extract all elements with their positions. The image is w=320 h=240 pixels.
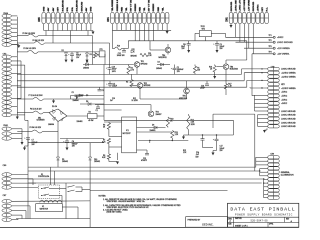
transistor TR3 — [148, 105, 161, 117]
svg-text:48V: 48V — [52, 7, 55, 11]
svg-text:F7 2.5A S-B 250V: F7 2.5A S-B 250V — [29, 94, 44, 97]
wire left drop bus — [25, 120, 28, 218]
resistor R16 — [209, 65, 216, 77]
capacitor C10 — [106, 65, 117, 75]
svg-text:LOGIC GROUND: LOGIC GROUND — [277, 42, 293, 44]
ground D3 — [86, 60, 89, 63]
svg-text:D8: D8 — [86, 101, 88, 103]
connector CN2 — [2, 12, 12, 46]
svg-text:F8 5A S-B 32V: F8 5A S-B 32V — [30, 107, 42, 110]
capacitor C18 — [200, 81, 209, 90]
svg-text:GROUND: GROUND — [231, 1, 233, 11]
svg-text:+12VDC UNREG.: +12VDC UNREG. — [281, 76, 296, 78]
svg-text:+: + — [171, 68, 172, 70]
wire bus y142.7 — [28, 142, 104, 144]
ground R16 — [213, 76, 216, 79]
wire bus under IC — [138, 138, 188, 143]
capacitor C6 — [68, 52, 81, 60]
svg-text:ILLUMINATION: ILLUMINATION — [281, 174, 294, 177]
ground C8 — [187, 50, 190, 53]
wire bus center 3 — [28, 170, 260, 172]
fuse F8 — [17, 107, 49, 114]
svg-text:MJE15031: MJE15031 — [159, 57, 167, 59]
svg-text:2N6057: 2N6057 — [156, 114, 162, 116]
ground D2 — [65, 60, 68, 63]
diode D7 — [71, 94, 105, 102]
fuse F3 — [17, 47, 99, 54]
svg-text:TP3: TP3 — [269, 46, 272, 48]
wire relay outputs — [57, 183, 78, 219]
title block — [228, 203, 299, 227]
ground C17 — [203, 148, 217, 156]
svg-text:VARISTOR: VARISTOR — [40, 208, 49, 211]
svg-text:520-5047-00: 520-5047-00 — [250, 220, 268, 223]
capacitor C7 — [24, 138, 37, 146]
wire bus logic ground — [17, 86, 247, 88]
diode D2 — [62, 50, 68, 60]
wire +5V feeders to CN8 — [255, 95, 268, 111]
capacitor C13 — [137, 150, 150, 162]
wire TR2-TR5 emitter rail — [140, 98, 187, 100]
ground C4 — [66, 148, 69, 151]
wire right loop — [213, 114, 255, 171]
svg-text:C16: C16 — [112, 98, 115, 100]
svg-text:CN1: CN1 — [226, 17, 228, 22]
wire relay feeds — [38, 167, 54, 185]
svg-text:F6 8A S-B 32V: F6 8A S-B 32V — [33, 39, 45, 42]
ground CN1 pin1 — [230, 25, 233, 28]
svg-text:RED: RED — [121, 6, 123, 11]
resistor R8 — [102, 154, 111, 159]
resistor R10 — [166, 117, 173, 128]
bridge rectifier D1-D4 — [37, 106, 68, 126]
wire feeders to CN9 — [256, 157, 268, 197]
svg-text:SPECIFIED. VALUES MARKED * ARE: SPECIFIED. VALUES MARKED * ARE 1%. — [107, 200, 146, 203]
diode D9 — [137, 125, 166, 133]
svg-text:+: + — [185, 43, 186, 45]
svg-text:REV: REV — [286, 218, 289, 220]
wire ground feeders to CN8 — [258, 115, 268, 127]
svg-text:TP2: TP2 — [269, 40, 272, 42]
notes frame — [90, 183, 227, 227]
wire CN10 comb and ground — [12, 129, 22, 142]
wire TR1 emitter drop — [103, 65, 105, 96]
svg-text:IC1: IC1 — [126, 130, 129, 132]
wire cap rail — [188, 134, 233, 135]
capacitor C11 — [106, 81, 117, 88]
notes text — [99, 196, 182, 214]
svg-text:R15: R15 — [183, 150, 186, 152]
svg-text:SOLENOID PWR: SOLENOID PWR — [77, 0, 79, 12]
resistor R11 — [140, 53, 153, 57]
capacitor C14 — [196, 135, 205, 158]
wire TR3 base bus — [95, 98, 151, 110]
svg-text:CN6: CN6 — [3, 165, 7, 167]
svg-text:R11: R11 — [148, 53, 151, 55]
svg-text:2uF: 2uF — [110, 100, 113, 102]
svg-text:DATA EAST PINBALL: DATA EAST PINBALL — [230, 207, 295, 213]
svg-text:NOTES:: NOTES: — [99, 196, 107, 198]
svg-text:CN5: CN5 — [39, 17, 41, 22]
wire TR1 collector bus — [83, 36, 134, 65]
wire bottom bus — [16, 218, 90, 220]
svg-text:YEL: YEL — [162, 7, 164, 12]
ground C9 — [216, 50, 219, 53]
fuse F5 — [17, 32, 92, 37]
svg-text:+5VDC: +5VDC — [281, 96, 288, 98]
wire CN2 pin comb to left bus — [12, 16, 19, 45]
connector CN4 — [107, 0, 169, 24]
svg-text:+: + — [68, 54, 69, 56]
wire bus +12V unreg — [17, 73, 241, 75]
svg-text:1N5402: 1N5402 — [94, 161, 100, 163]
svg-text:100uF: 100uF — [79, 95, 84, 97]
svg-text:1N4004: 1N4004 — [83, 67, 89, 69]
prepared by box — [186, 217, 228, 228]
svg-text:48V: 48V — [85, 7, 88, 11]
diode D10 — [89, 143, 100, 183]
ground C6 — [71, 60, 74, 63]
svg-text:LOGIC GROUND: LOGIC GROUND — [281, 126, 296, 128]
svg-text:RT1: RT1 — [100, 49, 103, 51]
svg-text:D2: D2 — [62, 50, 64, 52]
svg-text:GED INC.: GED INC. — [202, 222, 214, 226]
svg-text:1N5402: 1N5402 — [77, 121, 83, 123]
diode D5 — [77, 95, 89, 123]
svg-text:SOL: SOL — [67, 6, 69, 11]
resistor R13 — [137, 131, 179, 139]
svg-text:PREPARED BY: PREPARED BY — [188, 218, 201, 221]
svg-text:+5VDC: +5VDC — [277, 37, 284, 39]
node general illumination — [281, 171, 294, 176]
svg-text:TP1: TP1 — [269, 35, 272, 37]
svg-text:GREEN: GREEN — [135, 3, 137, 11]
transformer T1 winding — [40, 200, 62, 202]
ground IC1 — [109, 159, 119, 164]
resistor R3 — [127, 65, 135, 75]
svg-text:CN7: CN7 — [3, 195, 7, 197]
resistor R17 — [224, 84, 232, 96]
transistor TR5 — [179, 81, 189, 100]
ground CN4 — [166, 30, 169, 34]
svg-text:RED: RED — [140, 6, 142, 11]
svg-text:1N4004: 1N4004 — [73, 100, 79, 102]
svg-text:N.C.: N.C. — [266, 7, 268, 12]
wire CN7 comb — [12, 201, 91, 220]
svg-text:+5VDC: +5VDC — [281, 92, 288, 94]
resistor R6 — [103, 123, 111, 130]
svg-text:POWER SUPPLY BOARD SCHEMATIC: POWER SUPPLY BOARD SCHEMATIC — [235, 214, 293, 217]
svg-text:4700PF: 4700PF — [141, 160, 147, 162]
diode D8 — [80, 96, 104, 121]
transistor TR6 — [217, 60, 247, 84]
node TP3 +12V unreg — [244, 46, 291, 50]
node TP1 +5VDC — [226, 35, 285, 39]
wire bus center 1 — [104, 119, 233, 121]
svg-text:D4: D4 — [158, 62, 160, 64]
svg-text:KEY: KEY — [262, 6, 264, 11]
resistor R1 — [193, 65, 200, 75]
svg-text:1N5402: 1N5402 — [62, 161, 68, 163]
svg-text:48V: 48V — [47, 7, 50, 11]
svg-text:1N5402: 1N5402 — [156, 68, 162, 70]
svg-text:LOGIC GROUND: LOGIC GROUND — [281, 118, 296, 120]
wire CN4 pin drops — [112, 24, 171, 41]
svg-text:-12V UNREG.: -12V UNREG. — [277, 54, 290, 56]
resistor R2 wirewound — [67, 111, 104, 121]
wire regulator input bus — [110, 41, 247, 65]
svg-text:R12: R12 — [133, 98, 136, 100]
diode D4 1N5402 — [156, 62, 170, 70]
diode D6 — [83, 62, 89, 70]
svg-text:R2: R2 — [89, 111, 91, 113]
connector CN3 — [2, 54, 12, 117]
connector CN10 — [2, 125, 12, 140]
svg-text:LOGIC GROUND: LOGIC GROUND — [281, 115, 296, 117]
svg-text:C5: C5 — [72, 92, 74, 94]
capacitor C5 — [72, 92, 84, 99]
wire IC1 left pins — [104, 122, 122, 160]
capacitor C9 — [213, 41, 224, 50]
svg-text:GND: GND — [91, 6, 93, 11]
svg-text:DB1: DB1 — [38, 118, 41, 120]
capacitor C8 — [181, 41, 191, 50]
fuse F9 — [17, 122, 58, 134]
svg-text:+12VDC UNREG.: +12VDC UNREG. — [281, 88, 296, 90]
svg-text:D1-D4: D1-D4 — [52, 106, 57, 108]
fuse F7 — [17, 94, 104, 101]
svg-text:+5VDC RET: +5VDC RET — [235, 0, 237, 12]
svg-text:KEY: KEY — [58, 6, 60, 11]
wire CN1 pin drops — [231, 24, 253, 54]
svg-text:+: + — [213, 43, 214, 45]
svg-text:CN9: CN9 — [270, 153, 274, 155]
svg-text:YEL: YEL — [144, 7, 146, 12]
svg-text:25V CT TAP: 25V CT TAP — [148, 0, 151, 12]
wire feeders to CN8 — [242, 41, 268, 96]
ground CN10 — [21, 142, 24, 145]
svg-text:CONTROL/RA: CONTROL/RA — [38, 175, 50, 178]
ground CN5 common — [91, 31, 94, 35]
node TP4 -12V unreg — [252, 51, 290, 55]
svg-text:SOL: SOL — [72, 6, 74, 11]
capacitor C1 — [171, 65, 184, 75]
wire bus -12V unreg — [17, 80, 244, 82]
ground CN8 — [263, 128, 267, 133]
diode D12 — [131, 49, 137, 57]
ground R14 — [182, 135, 188, 139]
wire bus to CN9 b — [28, 182, 262, 184]
svg-text:CN10: CN10 — [3, 125, 8, 127]
relay K1 — [38, 185, 59, 198]
svg-text:50V CT TAP: 50V CT TAP — [129, 0, 132, 12]
svg-text:GROUND: GROUND — [253, 1, 255, 11]
svg-text:F9 5A S-B 32V: F9 5A S-B 32V — [30, 126, 42, 129]
ground F7 line — [52, 99, 55, 103]
node TP2 logic ground — [236, 40, 294, 44]
svg-text:100uF 16V: 100uF 16V — [117, 55, 126, 57]
svg-text:-12V UNREG: -12V UNREG — [249, 0, 251, 12]
svg-text:TP4: TP4 — [269, 51, 272, 53]
svg-text:MPSD02: MPSD02 — [141, 63, 148, 65]
transistor TR4 — [150, 41, 171, 59]
capacitor C12 — [117, 49, 126, 57]
wire taps from CN5 bus — [46, 31, 88, 44]
svg-text:CN4: CN4 — [107, 17, 110, 22]
capacitor C3 — [98, 87, 105, 92]
svg-text:300: 300 — [197, 70, 200, 72]
svg-text:C12: C12 — [118, 53, 121, 55]
svg-text:100uF: 100uF — [200, 88, 205, 90]
resistor R14 — [187, 114, 195, 135]
svg-text:D12: D12 — [132, 49, 135, 51]
svg-text:+5VDC: +5VDC — [281, 99, 288, 101]
svg-text:VR2: VR2 — [202, 28, 205, 30]
svg-text:LOGIC GROUND: LOGIC GROUND — [281, 122, 296, 124]
resistor R7 — [102, 138, 111, 143]
ground CN2 spare pin — [17, 45, 20, 48]
svg-text:+12V UNREG: +12V UNREG — [244, 0, 246, 12]
resistor R4 — [126, 74, 133, 86]
connector CN5 — [39, 0, 93, 24]
svg-text:.45 5W: .45 5W — [88, 120, 94, 122]
svg-text:+: + — [106, 83, 107, 85]
capacitor C4 — [60, 139, 104, 148]
svg-text:GROUND: GROUND — [81, 1, 83, 11]
svg-text:YEL/GREEN: YEL/GREEN — [112, 0, 114, 12]
diode D5 — [57, 132, 68, 168]
transistor TR2 — [132, 83, 151, 99]
svg-text:C3: C3 — [102, 90, 104, 92]
svg-text:MJE15030: MJE15030 — [230, 69, 238, 71]
wire CN3 pin comb — [12, 57, 25, 121]
connector CN6 — [2, 165, 12, 189]
svg-text:LOGIC +5VDC: LOGIC +5VDC — [240, 0, 242, 12]
connector CN9 — [268, 153, 280, 199]
svg-text:GREEN 6.3V: GREEN 6.3V — [117, 0, 119, 12]
varistor V1 — [36, 204, 63, 212]
diode D3 — [86, 52, 92, 60]
svg-text:+12V UNREG.: +12V UNREG. — [277, 48, 291, 50]
svg-text:1N4004: 1N4004 — [48, 124, 54, 126]
svg-text:+: + — [24, 138, 25, 140]
wire left bus — [16, 17, 18, 115]
ground C7 — [23, 146, 28, 150]
capacitor C2 — [96, 105, 101, 112]
transistor TR1 — [134, 61, 147, 74]
svg-text:+: + — [63, 141, 64, 143]
svg-text:7812: 7812 — [201, 26, 205, 28]
svg-text:RED: RED — [158, 6, 160, 11]
svg-text:YEL: YEL — [126, 7, 128, 12]
wire bus to CN9 a — [28, 178, 264, 180]
svg-text:SIZE: SIZE — [228, 224, 231, 226]
svg-text:D9: D9 — [152, 125, 154, 127]
capacitor C17 — [213, 135, 224, 152]
svg-text:D3: D3 — [90, 54, 92, 56]
resistor R5 — [93, 52, 99, 58]
svg-text:C2: C2 — [96, 110, 98, 112]
IC1 MC723CP — [122, 117, 137, 153]
connector CN1 — [226, 0, 268, 24]
contact arrows right of relay — [67, 186, 90, 193]
svg-text:+12VDC UNREG.: +12VDC UNREG. — [281, 73, 296, 75]
ground left bus — [16, 115, 19, 119]
svg-text:CN2A: CN2A — [3, 12, 9, 15]
svg-text:(SEE KEY 5080): (SEE KEY 5080) — [107, 211, 122, 213]
svg-text:1K 1/2W: 1K 1/2W — [132, 100, 139, 102]
svg-text:SOLENOID GND: SOLENOID GND — [62, 0, 64, 12]
svg-text:D5: D5 — [86, 95, 88, 97]
svg-text:GREEN: GREEN — [153, 3, 155, 11]
svg-text:+5VDC: +5VDC — [281, 103, 288, 105]
svg-text:LOGIC GROUND: LOGIC GROUND — [281, 69, 296, 71]
svg-text:+5VDC: +5VDC — [258, 4, 260, 12]
svg-text:LOGIC GROUND: LOGIC GROUND — [281, 111, 296, 113]
fuse F6 — [17, 39, 109, 44]
wire bus center 2 — [28, 166, 256, 168]
svg-text:+: + — [213, 139, 214, 141]
svg-text:R5: R5 — [97, 54, 99, 56]
svg-text:GND: GND — [44, 6, 46, 11]
svg-text:F3 5A S-B 250V: F3 5A S-B 250V — [23, 47, 36, 50]
resistor R15 label — [183, 150, 187, 154]
wire CN6 comb — [12, 175, 39, 188]
svg-text:MC723CP: MC723CP — [123, 133, 132, 135]
svg-text:MPSD02: MPSD02 — [144, 85, 151, 87]
wire CN5 pin drops — [44, 24, 91, 31]
svg-text:D6: D6 — [86, 62, 88, 64]
regulator VR2 7812 — [195, 26, 226, 41]
thermistor RT1 — [99, 49, 105, 65]
connector CN7 — [2, 195, 12, 222]
svg-text:+: + — [106, 68, 107, 70]
svg-text:BRIDGE: BRIDGE — [131, 55, 137, 57]
svg-text:1/2W: 1/2W — [191, 124, 195, 126]
fuse F10 — [112, 30, 128, 50]
border bottom — [0, 226, 299, 228]
connector CN8 — [268, 66, 297, 128]
svg-text:R4: R4 — [126, 82, 128, 84]
